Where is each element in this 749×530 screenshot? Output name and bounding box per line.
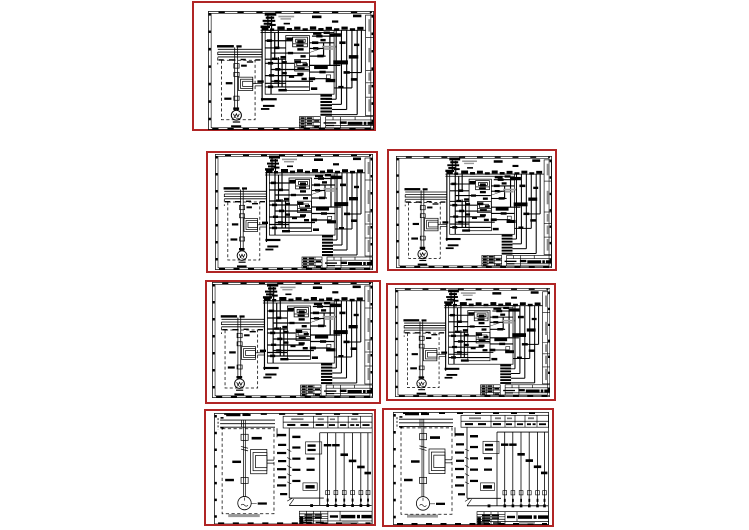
sheet 6: 卷扬机原理图 (bottom left) bbox=[204, 409, 376, 527]
sheet 2: 控制原理图 (row2 left) bbox=[206, 151, 378, 273]
sheet 1: 控制原理图 (top) bbox=[192, 1, 376, 131]
sheet 5: 控制原理图 (row3 right) bbox=[386, 283, 556, 401]
hidden defs: schematic templates bbox=[0, 0, 1, 1]
sheet 7: 卷扬机原理图 (bottom right) bbox=[382, 408, 554, 527]
sheet 3: 控制原理图 (row2 right) bbox=[387, 149, 557, 271]
sheet 4: 控制原理图 (row3 left) bbox=[205, 280, 381, 404]
